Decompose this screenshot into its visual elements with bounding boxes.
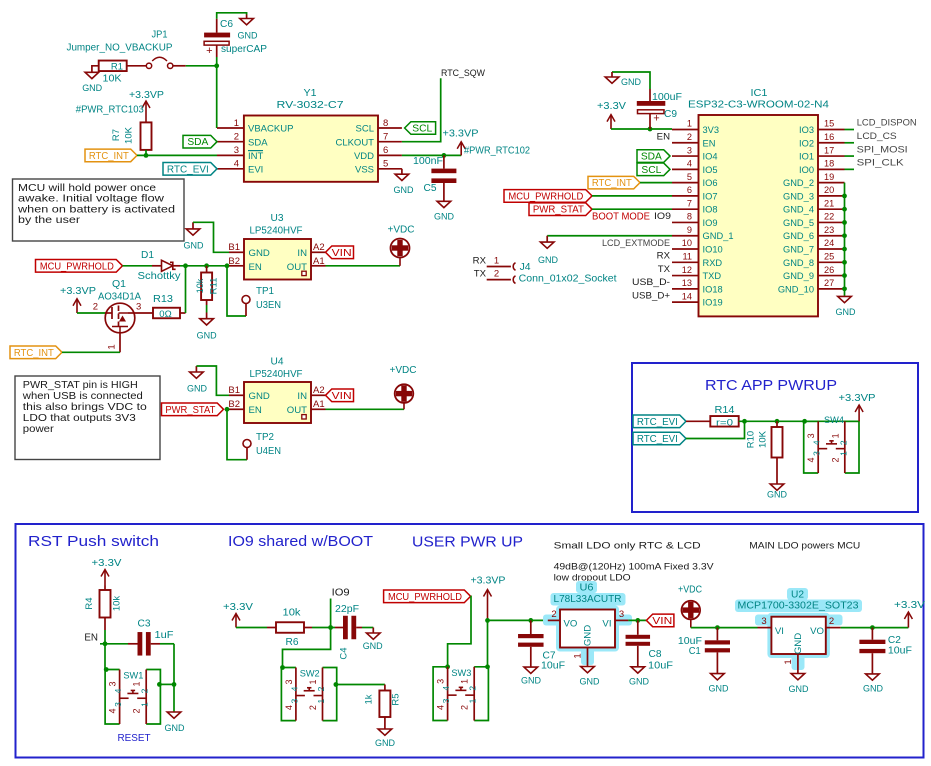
resistor R10 10K bbox=[746, 421, 783, 483]
svg-text:4: 4 bbox=[812, 440, 822, 445]
svg-text:B1: B1 bbox=[228, 385, 240, 396]
svg-text:10uF: 10uF bbox=[541, 660, 565, 671]
label LCD_EXTMODE bbox=[602, 238, 670, 249]
global label MCU_PWRHOLD (user) bbox=[384, 590, 471, 603]
svg-text:U4: U4 bbox=[271, 357, 284, 368]
svg-text:TX: TX bbox=[474, 269, 487, 280]
title USER PWR UP bbox=[412, 535, 523, 551]
svg-text:2: 2 bbox=[830, 457, 840, 462]
wire MCU_PWRHOLD to IO7 bbox=[592, 195, 672, 197]
svg-text:IN: IN bbox=[297, 248, 307, 259]
svg-text:1: 1 bbox=[140, 702, 150, 707]
svg-text:GND: GND bbox=[238, 30, 258, 41]
svg-text:IO18: IO18 bbox=[703, 284, 723, 294]
svg-text:IO9: IO9 bbox=[332, 588, 350, 599]
junction RTC_EVI lower bbox=[742, 419, 747, 424]
svg-text:VO: VO bbox=[564, 619, 578, 630]
svg-text:5: 5 bbox=[383, 159, 388, 170]
svg-text:PWR_STAT: PWR_STAT bbox=[165, 405, 215, 416]
svg-text:10uF: 10uF bbox=[648, 661, 673, 672]
label IO9 bbox=[654, 211, 671, 222]
svg-text:R10: R10 bbox=[746, 431, 757, 448]
wire MCU_PWRHOLD to D1 bbox=[123, 265, 162, 267]
svg-text:GND: GND bbox=[793, 633, 804, 654]
title IO9 shared w/BOOT bbox=[228, 534, 373, 550]
svg-text:GND: GND bbox=[434, 211, 454, 222]
svg-text:LCD_EXTMODE: LCD_EXTMODE bbox=[602, 238, 670, 249]
svg-text:10uF: 10uF bbox=[888, 646, 912, 657]
svg-text:RV-3032-C7: RV-3032-C7 bbox=[277, 100, 345, 111]
svg-text:2: 2 bbox=[132, 708, 142, 713]
wire +3.3V to R6 bbox=[236, 627, 276, 629]
wire D1 to U3 EN bbox=[180, 265, 229, 267]
svg-text:IO9 shared w/BOOT: IO9 shared w/BOOT bbox=[228, 534, 373, 550]
switch SW4 bbox=[804, 415, 859, 473]
svg-text:12: 12 bbox=[682, 265, 692, 275]
junction D1/R13 bbox=[183, 263, 188, 268]
wire R13 to D1 junction bbox=[185, 266, 187, 313]
svg-text:R4: R4 bbox=[84, 597, 95, 609]
capacitor C1 10uF bbox=[678, 628, 730, 674]
svg-text:RTC APP PWRUP: RTC APP PWRUP bbox=[705, 377, 837, 394]
svg-text:3: 3 bbox=[234, 145, 239, 156]
svg-text:SDA: SDA bbox=[248, 137, 268, 148]
svg-text:GND: GND bbox=[621, 76, 641, 87]
svg-text:GND: GND bbox=[165, 722, 185, 733]
power +3.3VP for R7 bbox=[76, 90, 165, 123]
svg-text:GND_10: GND_10 bbox=[778, 284, 814, 294]
svg-text:2: 2 bbox=[494, 269, 499, 280]
power +3.3VP (user) bbox=[471, 576, 506, 621]
svg-text:10k: 10k bbox=[195, 278, 205, 293]
wire R6 to C4 bbox=[312, 627, 335, 629]
svg-text:GND: GND bbox=[583, 625, 594, 646]
junction C9 / 3V3 bbox=[648, 127, 653, 132]
title RST Push switch bbox=[28, 534, 159, 550]
svg-text:USER PWR UP: USER PWR UP bbox=[412, 535, 523, 551]
wire SW2 to R5 bbox=[336, 684, 385, 686]
IC U3 LP5240HVF bbox=[228, 213, 325, 280]
svg-text:IO3: IO3 bbox=[799, 125, 814, 135]
wire +3.3V to IC1 3V3 bbox=[611, 128, 672, 130]
svg-text:MCU_PWRHOLD: MCU_PWRHOLD bbox=[508, 191, 583, 202]
global label RTC_INT (Q1) bbox=[10, 346, 62, 359]
wire C3 to ground / SW1 bbox=[160, 644, 174, 712]
svg-text:IO7: IO7 bbox=[703, 191, 718, 201]
svg-text:1: 1 bbox=[687, 119, 692, 129]
svg-text:GND: GND bbox=[767, 489, 787, 500]
svg-text:GND: GND bbox=[249, 248, 270, 259]
svg-text:4: 4 bbox=[289, 686, 299, 691]
global label RTC_EVI (Y1) bbox=[163, 163, 217, 176]
wire ground to U4 GND pin bbox=[196, 366, 229, 395]
svg-text:Y1: Y1 bbox=[304, 88, 317, 99]
svg-text:INT: INT bbox=[248, 151, 264, 162]
svg-text:1: 1 bbox=[234, 118, 239, 129]
resistor R6 10k bbox=[276, 608, 312, 649]
svg-text:GND: GND bbox=[863, 683, 883, 694]
svg-text:3: 3 bbox=[284, 679, 294, 684]
ground below C2 bbox=[863, 674, 883, 694]
junction SW1 right bbox=[157, 682, 162, 687]
power +3.3V at IC1 bbox=[597, 101, 626, 129]
svg-text:19: 19 bbox=[824, 172, 834, 182]
switch SW3 bbox=[433, 667, 488, 721]
note box: MCU will hold power bbox=[13, 179, 185, 241]
global label RTC_INT (Y1) bbox=[85, 149, 137, 162]
svg-text:4: 4 bbox=[234, 159, 239, 170]
svg-text:GND_6: GND_6 bbox=[783, 231, 814, 241]
global label MCU_PWRHOLD (IC1) bbox=[504, 190, 592, 203]
svg-text:GND: GND bbox=[363, 640, 383, 651]
diode D1 Schottky bbox=[138, 250, 181, 282]
ground below R11 bbox=[197, 313, 217, 341]
svg-text:3: 3 bbox=[289, 698, 299, 703]
junction R7 / RTC_INT bbox=[144, 153, 149, 158]
svg-text:GND: GND bbox=[394, 184, 414, 195]
svg-text:6: 6 bbox=[687, 185, 692, 195]
wire U3 EN to TP1 bbox=[227, 266, 246, 316]
svg-text:CLKOUT: CLKOUT bbox=[335, 137, 374, 148]
svg-text:GND_1: GND_1 bbox=[703, 231, 734, 241]
svg-text:Conn_01x02_Socket: Conn_01x02_Socket bbox=[519, 274, 617, 285]
global label PWR_STAT (IC1) bbox=[529, 203, 592, 216]
label EN (RST) bbox=[84, 633, 98, 644]
svg-text:21: 21 bbox=[824, 198, 834, 208]
power +3.3V (IO9) bbox=[223, 602, 253, 628]
junction +3.3VP bbox=[485, 618, 490, 623]
wire SW1 to ground wire bbox=[159, 683, 174, 685]
global label SDA (IC1) bbox=[637, 150, 670, 163]
svg-text:TP1: TP1 bbox=[256, 286, 274, 297]
global label VIN (U3) bbox=[326, 246, 354, 259]
power +3.3V (main out) bbox=[894, 600, 925, 628]
svg-text:r=0: r=0 bbox=[716, 417, 733, 428]
svg-text:+3.3V: +3.3V bbox=[92, 558, 122, 569]
ground right of C4 bbox=[363, 628, 383, 651]
label RX at IC1 bbox=[657, 251, 671, 262]
svg-text:2: 2 bbox=[316, 686, 326, 691]
svg-text:LP5240HVF: LP5240HVF bbox=[250, 226, 303, 237]
svg-text:Jumper_NO_VBACKUP: Jumper_NO_VBACKUP bbox=[67, 43, 173, 54]
wire U4 EN to TP2 bbox=[227, 409, 247, 459]
svg-text:U2: U2 bbox=[791, 590, 804, 601]
wire RTC_INT to Q1 gate bbox=[62, 351, 120, 353]
junction R10 top bbox=[775, 419, 780, 424]
svg-text:GND: GND bbox=[375, 737, 395, 748]
svg-text:10K: 10K bbox=[758, 430, 769, 448]
svg-text:U4EN: U4EN bbox=[256, 446, 281, 457]
svg-text:17: 17 bbox=[824, 145, 834, 155]
junction VDD / C5 bbox=[442, 153, 447, 158]
svg-text:TX: TX bbox=[658, 264, 671, 275]
label USB_D- bbox=[632, 277, 670, 288]
wire U3 OUT to +VDC bbox=[326, 258, 401, 266]
label IO9 (switch) bbox=[332, 588, 350, 599]
IC IC1 ESP32-C3 body bbox=[688, 88, 829, 316]
svg-text:+3.3VP: +3.3VP bbox=[839, 393, 876, 404]
svg-text:3: 3 bbox=[441, 698, 451, 703]
svg-text:RX: RX bbox=[657, 251, 671, 262]
svg-text:U3EN: U3EN bbox=[256, 300, 281, 311]
svg-text:R13: R13 bbox=[153, 294, 173, 305]
connector J4 bbox=[487, 256, 617, 285]
resistor R14 r=0 bbox=[710, 405, 738, 428]
svg-text:IO4: IO4 bbox=[703, 152, 718, 162]
svg-text:GND: GND bbox=[521, 675, 541, 686]
svg-text:USB_D+: USB_D+ bbox=[632, 290, 670, 301]
svg-text:1: 1 bbox=[132, 681, 142, 686]
svg-text:VBACKUP: VBACKUP bbox=[248, 124, 293, 135]
wire C6 bottom to Y1 VBACKUP bbox=[216, 57, 218, 128]
switch SW1 bbox=[105, 670, 160, 725]
svg-text:+VDC: +VDC bbox=[390, 365, 417, 376]
svg-text:4: 4 bbox=[436, 705, 446, 710]
capacitor C9 100uF bbox=[637, 89, 682, 129]
svg-text:TXD: TXD bbox=[703, 271, 722, 281]
power +VDC (U4) bbox=[390, 365, 417, 403]
svg-text:IO0: IO0 bbox=[799, 165, 814, 175]
svg-text:R6: R6 bbox=[286, 637, 299, 648]
wire PWR_STAT to IO8 bbox=[592, 208, 672, 210]
svg-text:Q1: Q1 bbox=[112, 279, 126, 290]
svg-text:4: 4 bbox=[108, 708, 118, 713]
label TX at IC1 bbox=[658, 264, 671, 275]
box bottom sections bbox=[16, 524, 924, 758]
svg-text:2: 2 bbox=[551, 609, 556, 620]
svg-text:0Ω: 0Ω bbox=[159, 309, 171, 320]
svg-text:SW4: SW4 bbox=[824, 415, 844, 426]
svg-text:C4: C4 bbox=[339, 647, 350, 659]
svg-text:IC1: IC1 bbox=[751, 88, 768, 99]
svg-text:GND_3: GND_3 bbox=[783, 191, 814, 201]
svg-text:C6: C6 bbox=[220, 19, 233, 30]
wire U6 VI to VIN bbox=[628, 619, 646, 621]
svg-text:49dB@(120Hz) 100mA Fixed 3.3V: 49dB@(120Hz) 100mA Fixed 3.3V bbox=[554, 562, 715, 572]
svg-text:+3.3V: +3.3V bbox=[597, 101, 626, 112]
svg-text:MCU_PWRHOLD: MCU_PWRHOLD bbox=[40, 261, 114, 272]
svg-text:15: 15 bbox=[824, 119, 834, 129]
svg-text:22: 22 bbox=[824, 212, 834, 222]
global label RTC_EVI (upper) bbox=[633, 415, 686, 428]
svg-text:C9: C9 bbox=[664, 109, 677, 120]
svg-text:26: 26 bbox=[824, 265, 834, 275]
svg-text:GND: GND bbox=[709, 683, 729, 694]
svg-text:3: 3 bbox=[136, 302, 141, 313]
ground below R5 bbox=[375, 729, 395, 749]
svg-text:23: 23 bbox=[824, 225, 834, 235]
resistor R1 bbox=[99, 61, 127, 85]
svg-text:+: + bbox=[653, 113, 659, 125]
wire R14 to +3.3VP bbox=[739, 420, 859, 422]
svg-text:RST Push switch: RST Push switch bbox=[28, 534, 159, 550]
capacitor C7 10uF bbox=[518, 620, 565, 671]
text 49dB 120Hz 100mA bbox=[554, 562, 715, 572]
svg-text:EN: EN bbox=[657, 131, 670, 142]
svg-text:TP2: TP2 bbox=[256, 432, 274, 443]
wire R1 left lead to ground bbox=[92, 66, 99, 72]
ground below C1 bbox=[709, 673, 729, 693]
svg-text:IO8: IO8 bbox=[703, 205, 718, 215]
wire R4 to EN net bbox=[100, 630, 128, 644]
wire RTC_INT to IO6 bbox=[640, 182, 672, 184]
wire R11 to ground bbox=[206, 305, 208, 313]
svg-text:IO5: IO5 bbox=[703, 165, 718, 175]
svg-text:SDA: SDA bbox=[187, 137, 208, 148]
ground above right of C6 bbox=[238, 15, 258, 41]
svg-text:+: + bbox=[206, 45, 212, 57]
svg-text:PWR_STAT: PWR_STAT bbox=[533, 205, 584, 216]
svg-text:EN: EN bbox=[249, 405, 262, 416]
svg-text:IO10: IO10 bbox=[703, 245, 723, 255]
svg-text:L78L33ACUTR: L78L33ACUTR bbox=[554, 594, 622, 605]
svg-text:+VDC: +VDC bbox=[388, 225, 415, 236]
junction IO9 bbox=[328, 625, 333, 630]
wire Y1 CLKOUT to RTC_SQW bbox=[402, 78, 441, 142]
junction PWR_STAT / TP2 bbox=[225, 407, 230, 412]
svg-text:A2: A2 bbox=[313, 385, 325, 396]
svg-text:C5: C5 bbox=[424, 183, 437, 194]
svg-text:24: 24 bbox=[824, 238, 834, 248]
power +VDC (U3) bbox=[388, 225, 415, 258]
junction EN bbox=[103, 641, 108, 646]
text BOOT MODE bbox=[592, 212, 650, 223]
svg-text:RTC_INT: RTC_INT bbox=[14, 348, 54, 359]
svg-text:R5: R5 bbox=[391, 693, 402, 705]
wire Y1 VDD to +3.3VP bbox=[402, 154, 461, 156]
ground below IC1 bbox=[836, 296, 856, 317]
global label RTC_INT (IC1) bbox=[588, 176, 640, 189]
transistor Q1 AO34D1A bbox=[93, 279, 142, 352]
wire IO9 label stem bbox=[330, 599, 332, 628]
wire RTC_EVI to R14 bbox=[686, 420, 710, 422]
wire U2 VO to +3.3V bbox=[841, 627, 909, 629]
svg-text:EN: EN bbox=[249, 262, 262, 273]
svg-text:1: 1 bbox=[468, 698, 478, 703]
global label PWR_STAT (U4) bbox=[162, 403, 224, 416]
svg-text:VSS: VSS bbox=[355, 164, 374, 175]
wire +3.3VP to SW3 bbox=[487, 620, 489, 666]
wire +3.3VP to U6 VI bbox=[488, 619, 548, 621]
wire IO9 to SW2 bbox=[283, 628, 331, 668]
svg-text:MCP1700-3302E_SOT23: MCP1700-3302E_SOT23 bbox=[738, 601, 859, 612]
svg-text:13: 13 bbox=[682, 278, 692, 288]
svg-text:4: 4 bbox=[441, 686, 451, 691]
svg-text:RTC_EVI: RTC_EVI bbox=[167, 164, 209, 175]
svg-text:SW3: SW3 bbox=[451, 668, 471, 679]
svg-text:RTC_EVI: RTC_EVI bbox=[637, 434, 678, 445]
switch SW2 bbox=[281, 668, 336, 721]
svg-text:GND: GND bbox=[82, 82, 102, 93]
svg-text:JP1: JP1 bbox=[152, 29, 168, 40]
svg-text:1: 1 bbox=[308, 679, 318, 684]
svg-text:SW1: SW1 bbox=[123, 671, 143, 682]
junction C1 bbox=[715, 625, 720, 630]
svg-text:RESET: RESET bbox=[118, 732, 152, 744]
junction C2 bbox=[870, 625, 875, 630]
svg-text:VIN: VIN bbox=[332, 248, 352, 259]
svg-text:AO34D1A: AO34D1A bbox=[98, 292, 141, 303]
wire MCU_PWRHOLD to SW3 bbox=[448, 596, 471, 667]
junction SW4 left bbox=[802, 419, 807, 424]
svg-text:4: 4 bbox=[687, 159, 692, 169]
junction D1/TP1 bbox=[225, 263, 230, 268]
svg-text:U3: U3 bbox=[271, 213, 284, 224]
svg-text:LCD_CS: LCD_CS bbox=[857, 131, 897, 142]
svg-text:power: power bbox=[23, 423, 55, 435]
svg-text:VI: VI bbox=[775, 626, 784, 637]
svg-text:RTC_EVI: RTC_EVI bbox=[637, 417, 678, 428]
svg-text:20: 20 bbox=[824, 185, 834, 195]
svg-text:7: 7 bbox=[383, 132, 388, 143]
svg-text:SCL: SCL bbox=[412, 124, 433, 135]
ground at Y1 VSS bbox=[394, 169, 414, 195]
svg-text:SPI_CLK: SPI_CLK bbox=[857, 158, 905, 169]
svg-text:USB_D-: USB_D- bbox=[632, 277, 670, 288]
svg-text:VI: VI bbox=[602, 619, 611, 630]
svg-text:100nF: 100nF bbox=[413, 156, 443, 167]
ground below C3 bbox=[165, 712, 185, 734]
svg-text:EVI: EVI bbox=[248, 164, 263, 175]
test point TP2 bbox=[243, 432, 281, 460]
svg-text:IO6: IO6 bbox=[703, 178, 718, 188]
svg-text:11: 11 bbox=[682, 252, 692, 262]
svg-text:J4: J4 bbox=[520, 262, 531, 273]
svg-text:RXD: RXD bbox=[703, 258, 723, 268]
svg-text:SDA: SDA bbox=[641, 152, 662, 163]
label USB_D+ bbox=[632, 290, 670, 301]
svg-text:+3.3V: +3.3V bbox=[894, 600, 925, 611]
junction SW2 right bbox=[334, 682, 339, 687]
svg-text:25: 25 bbox=[824, 252, 834, 262]
wire IC1 GND rail bbox=[842, 183, 847, 296]
svg-text:1: 1 bbox=[316, 698, 326, 703]
power +VDC (main) bbox=[678, 585, 702, 628]
svg-text:+3.3VP: +3.3VP bbox=[129, 90, 164, 101]
power +3.3VP at SW4 bbox=[839, 393, 876, 421]
svg-text:#PWR_RTC102: #PWR_RTC102 bbox=[464, 146, 530, 157]
svg-text:GND: GND bbox=[836, 306, 856, 317]
svg-text:1: 1 bbox=[830, 433, 840, 438]
text MAIN LDO powers MCU bbox=[749, 540, 860, 550]
wire EN to SW1 bbox=[105, 644, 106, 670]
svg-text:3: 3 bbox=[806, 433, 816, 438]
junction C3/SW1 bbox=[172, 682, 177, 687]
svg-text:1: 1 bbox=[107, 344, 118, 349]
ground below U6 bbox=[580, 662, 600, 687]
junction SW1 top bbox=[104, 667, 109, 672]
svg-text:GND: GND bbox=[197, 330, 217, 341]
svg-text:R11: R11 bbox=[209, 278, 220, 295]
wire RTC_EVI lower to net bbox=[686, 421, 745, 438]
svg-text:3: 3 bbox=[108, 681, 118, 686]
box RTC APP PWRUP bbox=[632, 363, 918, 512]
IC Y1 RV-3032-C7 body bbox=[244, 88, 378, 182]
svg-text:EN: EN bbox=[84, 633, 98, 644]
svg-text:IO9: IO9 bbox=[654, 211, 671, 222]
ground below C5 bbox=[434, 201, 454, 222]
ground above U3 bbox=[184, 222, 204, 250]
svg-text:Schottky: Schottky bbox=[138, 271, 181, 282]
resistor R13 0ohm bbox=[134, 294, 186, 320]
svg-text:3: 3 bbox=[436, 679, 446, 684]
svg-text:5: 5 bbox=[687, 172, 692, 182]
label EN at IC1 bbox=[657, 131, 670, 142]
IC U2 MCP1700 bbox=[735, 588, 862, 670]
svg-text:4: 4 bbox=[284, 705, 294, 710]
capacitor C4 22pF bbox=[335, 604, 362, 660]
capacitor C2 10uF bbox=[859, 628, 912, 674]
